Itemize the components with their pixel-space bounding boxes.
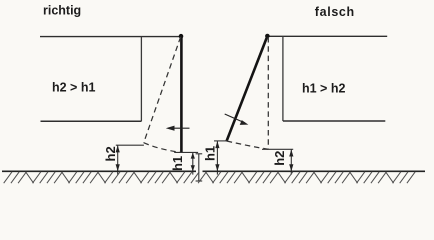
svg-text:h1 > h2: h1 > h2 [302, 82, 345, 96]
swing arrow right [225, 114, 245, 123]
svg-text:falsch: falsch [315, 5, 355, 19]
swing arrow left [169, 127, 190, 129]
right wall left edge [282, 36, 284, 121]
svg-text:h2: h2 [272, 151, 287, 166]
svg-text:h2 > h1: h2 > h1 [52, 81, 95, 95]
h2 dimension line left [117, 145, 119, 174]
h1 extension line right [214, 140, 227, 142]
svg-text:richtig: richtig [43, 4, 81, 18]
h1 dimension line left [192, 152, 194, 174]
dashed tilted door left [144, 37, 181, 143]
pivot right [265, 34, 270, 39]
h2 extension line right [262, 148, 293, 150]
svg-text:h2: h2 [103, 146, 118, 161]
h1 extension line left [174, 151, 198, 153]
h2 dimension line right [290, 149, 292, 174]
h1 dimension line right [216, 141, 218, 175]
dashed door bottom edge left [144, 143, 181, 153]
right wall top line [267, 35, 387, 37]
left wall top line [40, 36, 181, 38]
dashed door bottom edge right [227, 141, 269, 149]
left wall bottom line [41, 120, 142, 122]
ground hatching [4, 172, 416, 183]
door leaf left (solid vertical) [180, 36, 183, 152]
pivot left [179, 34, 184, 39]
dashed vertical door right [267, 37, 269, 149]
ground break mark (center) [198, 154, 200, 181]
left wall right edge [140, 37, 142, 122]
ground line [2, 170, 196, 172]
svg-text:h1: h1 [170, 156, 185, 171]
h2 extension line left [116, 144, 144, 146]
right wall bottom line [283, 120, 385, 122]
svg-text:h1: h1 [203, 146, 218, 161]
door leaf right (solid tilted) [227, 36, 268, 141]
